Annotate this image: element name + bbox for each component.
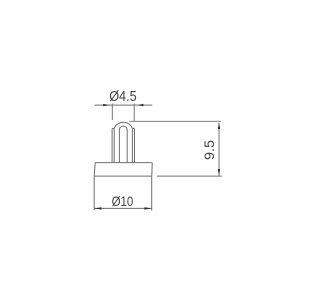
dim line diameter 10 (bottom edge)	[94, 207, 151, 209]
extension line bottom of height 9.5	[157, 175, 222, 177]
washer right side	[151, 163, 153, 177]
washer top edge	[95, 162, 152, 164]
arrow up for height 9.5	[218, 123, 220, 129]
washer bottom edge	[94, 175, 152, 177]
extension line top of height 9.5	[129, 120, 221, 122]
cylinder left side	[93, 176, 95, 210]
washer left side	[94, 163, 95, 177]
arrow inward-right for diameter 4.5	[137, 104, 143, 106]
arrow inward-left for diameter 4.5	[103, 104, 109, 106]
dim line height 9.5	[218, 123, 220, 176]
pin right barb shoulder	[132, 127, 134, 129]
pin left barb shoulder	[112, 127, 114, 129]
pin slot (inner U arch)	[119, 126, 127, 163]
arrow outward-right for diameter 10	[144, 207, 151, 209]
dim line diameter 4.5	[94, 104, 152, 106]
pin right leg (dome edge line)	[131, 128, 133, 162]
pin right barb outer line	[134, 129, 136, 163]
arrow outward-left for diameter 10	[95, 207, 102, 209]
extension line right of diameter 4.5	[133, 104, 135, 122]
extension line left of diameter 4.5	[111, 104, 113, 121]
svg-text:9.5: 9.5	[202, 140, 217, 160]
arrow down for height 9.5	[218, 169, 220, 175]
cylinder right side	[151, 176, 153, 210]
pin left barb outer line	[111, 129, 113, 163]
svg-text:Ø4.5: Ø4.5	[109, 89, 137, 105]
svg-text:Ø10: Ø10	[112, 193, 134, 209]
pin left leg (dome edge line)	[113, 128, 115, 162]
pin dome (snap head outer arc)	[114, 122, 132, 128]
